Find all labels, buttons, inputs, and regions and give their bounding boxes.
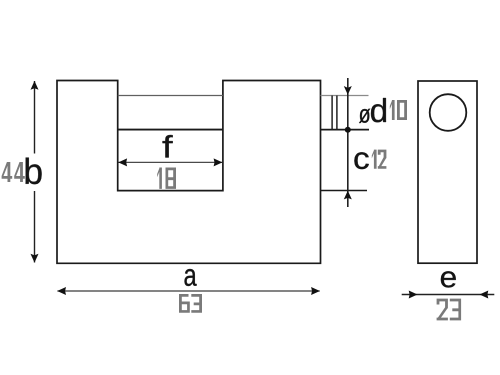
side view rectangle (418, 81, 477, 263)
dimension d vertical line (347, 78, 349, 207)
padlock body outline (front view) (57, 81, 321, 264)
shackle bottom line inside slot (118, 129, 223, 131)
label 12 (372, 150, 387, 169)
dimension b line lower segment (34, 191, 36, 263)
dimension f line (119, 161, 223, 163)
shackle end vertical line 2 (336, 96, 338, 130)
label b (26, 158, 42, 185)
dimension b arrow up (31, 81, 39, 90)
dimension f arrow left (118, 158, 127, 166)
label e (441, 271, 456, 287)
label 63 (179, 294, 202, 313)
label 23 (437, 299, 462, 321)
label f (163, 135, 173, 158)
dimension a arrow right (311, 287, 320, 295)
dimension c junction dot (345, 127, 351, 133)
dimension e arrow left-pointing (480, 291, 489, 299)
side view shackle hole circle (430, 94, 467, 131)
slot bottom extension line right of body (321, 190, 368, 192)
label 10 (390, 100, 407, 120)
label c (354, 152, 368, 169)
dimension e arrow right-pointing (409, 291, 418, 299)
shackle top line inside slot (118, 95, 223, 97)
dimension b line upper segment (34, 81, 36, 154)
dimension a arrow left (57, 287, 66, 295)
dimension a line (57, 290, 319, 292)
dimension e line (402, 294, 495, 296)
shackle bottom line right of body (321, 129, 370, 131)
shackle top line right of body (321, 95, 369, 97)
label 18 (157, 168, 176, 189)
dimension b arrow down (31, 254, 39, 263)
label 44 (2, 162, 25, 182)
dimension d arrow down (344, 86, 352, 95)
label phi-d (359, 98, 386, 123)
dimension f arrow right (214, 158, 223, 166)
label a (185, 269, 197, 286)
dimension c arrow up (344, 191, 352, 200)
shackle end vertical line 1 (331, 96, 333, 130)
